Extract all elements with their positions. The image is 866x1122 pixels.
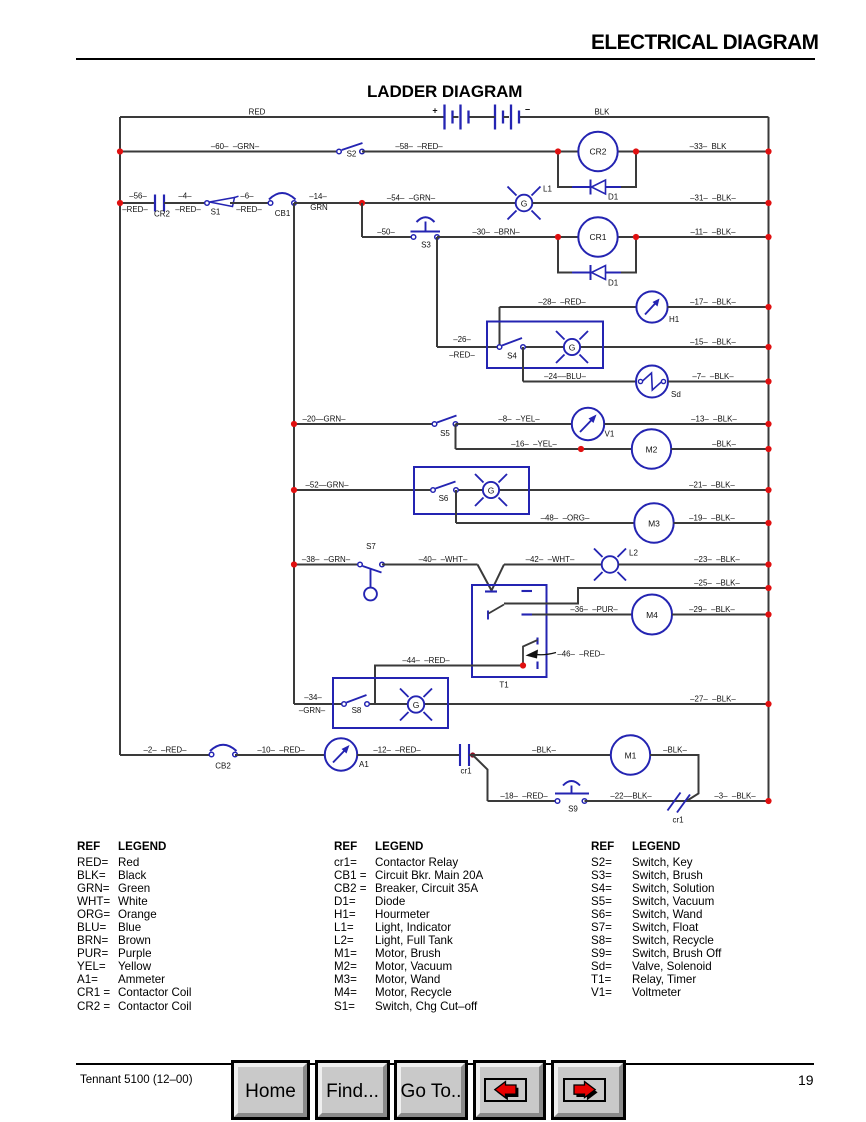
- node dot Sd rail: [765, 378, 771, 384]
- node dots S5 rung: [291, 421, 297, 427]
- node dots S6 rung: [291, 487, 297, 493]
- motor M1: [611, 735, 650, 774]
- contactor coil CR1: [578, 217, 617, 256]
- svg-text:RED: RED: [249, 107, 266, 116]
- svg-text:D1: D1: [608, 279, 619, 288]
- svg-text:S8: S8: [352, 706, 362, 715]
- wire 31 BLK (L1 to right rail): [533, 202, 769, 204]
- svg-text:GRN: GRN: [310, 203, 328, 212]
- svg-text:–4–: –4–: [178, 192, 192, 201]
- svg-text:M4: M4: [646, 610, 658, 620]
- LEGEND: [77, 840, 100, 853]
- switch S4: [497, 338, 525, 361]
- wire CR1 to right rail (11 BLK): [618, 236, 769, 238]
- switch S2: [337, 143, 365, 159]
- contact cr1 (normally closed slashes): [668, 793, 691, 825]
- svg-text:–RED–: –RED–: [175, 205, 201, 214]
- motor M2: [632, 429, 671, 468]
- svg-text:–48– –ORG–: –48– –ORG–: [541, 513, 590, 522]
- svg-text:G: G: [569, 343, 576, 353]
- svg-text:CB1: CB1: [275, 209, 291, 218]
- ladder diagram title: [367, 82, 522, 102]
- svg-text:–18– –RED–: –18– –RED–: [500, 791, 548, 800]
- switch S5: [432, 416, 458, 439]
- T1 top terminal bar: [485, 590, 497, 592]
- wire 25 BLK (T1 contact to right rail): [504, 588, 769, 604]
- motor M3: [634, 503, 673, 542]
- svg-text:A1: A1: [359, 760, 369, 769]
- lamp L1: [508, 185, 553, 220]
- svg-text:–28– –RED–: –28– –RED–: [538, 297, 586, 306]
- wire 19 BLK (M3 to right rail): [674, 522, 769, 524]
- circuit breaker CB1: [268, 193, 296, 218]
- wire 14 GRN / 54 GRN (CB1 to L1): [294, 202, 516, 204]
- node dot on 16 YEL wire: [578, 446, 584, 452]
- svg-text:–24––BLU–: –24––BLU–: [544, 372, 586, 381]
- node dot H1 rail: [765, 304, 771, 310]
- node junction dots rung1: [117, 148, 123, 154]
- wire 6 RED (S1 to CB1): [230, 202, 270, 204]
- ammeter A1: [325, 738, 370, 770]
- wire 48 ORG (to M3): [456, 522, 635, 524]
- svg-text:S9: S9: [568, 805, 578, 814]
- right rail: [768, 117, 770, 801]
- wire S5 down-branch to M2: [455, 424, 457, 449]
- svg-text:–BLK–: –BLK–: [712, 439, 736, 448]
- svg-text:L2: L2: [629, 549, 638, 558]
- node dots rung2: [117, 200, 123, 206]
- svg-text:–21– –BLK–: –21– –BLK–: [689, 480, 735, 489]
- svg-text:–RED–: –RED–: [449, 351, 475, 360]
- svg-text:–52—GRN–: –52—GRN–: [306, 480, 350, 489]
- svg-text:–22––BLK–: –22––BLK–: [610, 791, 652, 800]
- wire CR2 coil to right rail (33 BLK): [618, 151, 769, 153]
- wire 22 BLK (S9 to cr1 NC): [585, 800, 769, 802]
- svg-text:S3: S3: [421, 241, 431, 250]
- wire 12 RED (A1 to cr1 contact): [357, 754, 459, 756]
- svg-text:–BLK–: –BLK–: [532, 745, 556, 754]
- svg-text:–14–: –14–: [309, 192, 327, 201]
- svg-text:S5: S5: [440, 429, 450, 438]
- wire 29 BLK (M4 to right rail): [672, 614, 769, 616]
- wire S4 up-branch to H1 rung: [499, 307, 501, 345]
- node dot after cr1: [470, 752, 475, 757]
- svg-text:–16– –YEL–: –16– –YEL–: [511, 439, 557, 448]
- svg-text:L1: L1: [543, 185, 552, 194]
- svg-text:–3– –BLK–: –3– –BLK–: [714, 791, 756, 800]
- svg-text:cr1: cr1: [460, 767, 472, 776]
- T1 relay contact blade: [489, 605, 505, 614]
- wire 23 BLK (L2 to right rail): [619, 564, 769, 566]
- wire 60 GRN (left rail to S2): [120, 151, 339, 153]
- contact cr1 (normally open): [460, 744, 472, 776]
- enclosure box S6: [414, 467, 529, 514]
- node dots rung3: [555, 234, 561, 240]
- node dot S4 rail: [765, 344, 771, 350]
- svg-text:–50–: –50–: [377, 227, 395, 236]
- wire 56 RED (left rail to CR2 contact): [120, 202, 154, 204]
- svg-text:–11– –BLK–: –11– –BLK–: [690, 227, 736, 236]
- svg-text:–34–: –34–: [304, 693, 322, 702]
- wire BLK (M1 to corner): [650, 755, 699, 801]
- contactor coil CR2: [578, 132, 617, 171]
- svg-text:T1: T1: [499, 681, 509, 690]
- wire BLK (cr1 to M1): [469, 754, 611, 756]
- battery B1: [445, 105, 520, 130]
- svg-text:CB2: CB2: [215, 762, 231, 771]
- svg-text:D1: D1: [608, 193, 619, 202]
- svg-text:–10– –RED–: –10– –RED–: [257, 745, 305, 754]
- lamp L2: [594, 549, 638, 581]
- svg-text:–8– –YEL–: –8– –YEL–: [498, 414, 540, 423]
- wire 58 RED (S2 to CR2): [362, 151, 579, 153]
- svg-text:G: G: [413, 700, 420, 710]
- wire 20 GRN (bus to S5): [294, 423, 434, 425]
- svg-text:CR2: CR2: [589, 147, 606, 157]
- float switch S7: [358, 542, 385, 600]
- svg-text:–46– –RED–: –46– –RED–: [557, 650, 605, 659]
- header rule: [76, 58, 815, 60]
- wire 21 BLK (S6 through lamp to right rail): [456, 489, 769, 491]
- wire 13 BLK (V1 to right rail): [605, 423, 769, 425]
- svg-text:−: −: [525, 105, 530, 115]
- node dots S7 rung: [291, 561, 297, 567]
- lamp G in S6 box: [475, 474, 507, 506]
- node dot S9 rail: [765, 798, 771, 804]
- wire 42 WHT (dip to L2): [504, 564, 602, 566]
- node dot M2 rail: [765, 446, 771, 452]
- wire 26 RED (S3 branch to S4): [437, 346, 499, 348]
- svg-text:–26–: –26–: [453, 335, 471, 344]
- svg-text:+: +: [432, 106, 437, 116]
- svg-text:CR2: CR2: [154, 210, 171, 219]
- svg-text:S4: S4: [507, 352, 517, 361]
- wire 34 GRN (bus corner to S8): [294, 703, 344, 705]
- wire 40 WHT (S7 to T1 dip): [382, 564, 478, 566]
- node dot S8 rail: [765, 701, 771, 707]
- svg-text:–31– –BLK–: –31– –BLK–: [690, 193, 736, 202]
- wire 10 RED (CB2 to A1): [235, 754, 325, 756]
- svg-text:G: G: [521, 199, 528, 209]
- node dot 25 rail: [765, 585, 771, 591]
- wire 2 RED (left rail bottom to CB2): [120, 754, 211, 756]
- wire top rail right (BLK): [520, 116, 769, 118]
- svg-text:M3: M3: [648, 519, 660, 529]
- svg-text:–17– –BLK–: –17– –BLK–: [690, 297, 736, 306]
- svg-text:S6: S6: [439, 494, 449, 503]
- svg-text:–33– BLK: –33– BLK: [690, 142, 728, 151]
- switch S8: [342, 695, 370, 715]
- svg-text:S7: S7: [366, 542, 376, 551]
- svg-text:–19– –BLK–: –19– –BLK–: [689, 513, 735, 522]
- diode D1 snubber loop wire (upper): [558, 152, 636, 188]
- diode D1 (lower): [572, 265, 621, 288]
- svg-text:BLK: BLK: [595, 107, 611, 116]
- wire 50 (bus to S3): [362, 236, 414, 238]
- svg-text:–23– –BLK–: –23– –BLK–: [694, 555, 740, 564]
- svg-text:–58– –RED–: –58– –RED–: [395, 142, 443, 151]
- svg-text:CR1: CR1: [589, 232, 606, 242]
- wire 38 GRN (bus to S7): [294, 564, 360, 566]
- svg-text:–42– –WHT–: –42– –WHT–: [526, 555, 575, 564]
- wire 27 BLK (S8 through lamp to right rail): [367, 703, 769, 705]
- svg-text:–6–: –6–: [240, 192, 254, 201]
- svg-text:–56–: –56–: [129, 192, 147, 201]
- wire 52 GRN (bus to S6 box): [294, 489, 433, 491]
- svg-text:–29– –BLK–: –29– –BLK–: [689, 605, 735, 614]
- T1 fixed contact bar (upper NC): [522, 590, 533, 592]
- svg-text:–30– –BRN–: –30– –BRN–: [472, 227, 520, 236]
- enclosure box S8: [333, 678, 448, 728]
- wire 7 BLK (Sd to right rail): [668, 381, 769, 383]
- svg-text:–54– –GRN–: –54– –GRN–: [387, 193, 436, 202]
- wire dip into T1 top terminal: [478, 565, 505, 591]
- motor M4: [632, 595, 672, 635]
- svg-text:V1: V1: [605, 430, 615, 439]
- wire 15 BLK (S4 through lamp to right rail): [523, 346, 769, 348]
- svg-text:–GRN–: –GRN–: [299, 706, 326, 715]
- switch S1: [205, 196, 239, 216]
- wire 28 RED (to H1): [500, 306, 638, 308]
- svg-text:M2: M2: [646, 445, 658, 455]
- svg-text:–BLK–: –BLK–: [663, 745, 687, 754]
- wire 16 YEL (to M2): [456, 448, 633, 450]
- svg-text:–25– –BLK–: –25– –BLK–: [694, 578, 740, 587]
- voltmeter V1: [572, 408, 615, 440]
- wire 4 RED (CR2 contact to S1): [164, 202, 205, 204]
- T1 timed contact upper terminal: [536, 638, 538, 645]
- T1 timed contact blade: [523, 640, 538, 666]
- svg-text:–27– –BLK–: –27– –BLK–: [690, 694, 736, 703]
- svg-text:Sd: Sd: [671, 390, 681, 399]
- svg-text:–12– –RED–: –12– –RED–: [373, 745, 421, 754]
- wire battery cell ticks: [453, 116, 459, 118]
- T1 timed contact lower terminal: [536, 662, 538, 670]
- solenoid valve Sd: [636, 366, 681, 400]
- T1 fixed contact bar (lower NO): [522, 613, 533, 615]
- svg-text:–7– –BLK–: –7– –BLK–: [692, 372, 734, 381]
- svg-text:–RED–: –RED–: [122, 205, 148, 214]
- wire S6 down-branch to M3: [455, 490, 457, 523]
- svg-text:G: G: [488, 486, 495, 496]
- pushbutton switch S9: [555, 781, 589, 814]
- svg-text:–15– –BLK–: –15– –BLK–: [690, 337, 736, 346]
- hourmeter H1: [636, 291, 679, 324]
- wire 8 YEL (S5 to V1): [456, 423, 573, 425]
- enclosure box S4: [487, 322, 603, 369]
- svg-text:S2: S2: [347, 150, 357, 159]
- lamp G in S8 box: [400, 689, 432, 721]
- svg-text:S1: S1: [211, 208, 221, 217]
- lamp G in S4 box: [556, 331, 588, 363]
- relay timer T1 box: [472, 585, 547, 677]
- wire 36 PUR (T1 to M4): [532, 614, 632, 616]
- wire 30 BRN (S3 to CR1): [437, 236, 579, 238]
- svg-text:–60– –GRN–: –60– –GRN–: [211, 142, 260, 151]
- svg-text:H1: H1: [669, 315, 680, 324]
- node dot M3 rail: [765, 520, 771, 526]
- wire 46 RED actuation arrow: [526, 650, 606, 659]
- node dot T1 44 junction: [520, 662, 526, 668]
- wire 18 RED (branch to S9): [488, 800, 558, 802]
- svg-text:–40– –WHT–: –40– –WHT–: [419, 555, 468, 564]
- wire S4 down-branch to Sd rung: [522, 347, 524, 382]
- node dot M4 rail: [765, 611, 771, 617]
- svg-text:–2– –RED–: –2– –RED–: [144, 745, 188, 754]
- diode D1 (upper): [572, 180, 621, 202]
- wire 24 BLU (to Sd): [523, 381, 637, 383]
- wire left bus (below CB1 down to S8 rung): [293, 203, 295, 704]
- wire branch down to S9 rung: [473, 755, 488, 801]
- switch S6: [431, 482, 459, 504]
- svg-text:–RED–: –RED–: [236, 205, 262, 214]
- wire 44 RED (S8 branch to T1): [375, 666, 523, 705]
- wire M2 to right rail (BLK): [671, 448, 769, 450]
- wire 17 BLK (H1 to right rail): [668, 306, 769, 308]
- svg-text:–38– –GRN–: –38– –GRN–: [302, 555, 351, 564]
- left rail: [119, 117, 121, 755]
- FOOTER: [76, 1063, 814, 1065]
- header title: [591, 31, 815, 55]
- circuit breaker CB2: [209, 745, 237, 771]
- wire top rail left (RED): [120, 116, 445, 118]
- wire branch down to S3 rung: [361, 203, 363, 237]
- svg-text:cr1: cr1: [672, 816, 684, 825]
- svg-text:–13– –BLK–: –13– –BLK–: [691, 414, 737, 423]
- svg-text:–20—GRN–: –20—GRN–: [303, 414, 347, 423]
- diode D1 snubber loop wire (lower): [558, 237, 636, 273]
- wire battery mid link: [470, 116, 496, 118]
- SCHEMATIC SVG: [0, 0, 866, 840]
- pushbutton switch S3: [411, 217, 441, 249]
- wire S3 branch down to S4 rung: [436, 237, 438, 347]
- svg-text:M1: M1: [625, 751, 637, 761]
- T1 relay contact pivot pin: [487, 611, 489, 620]
- contact CR2 (normally open): [155, 195, 164, 212]
- svg-text:–44– –RED–: –44– –RED–: [402, 656, 450, 665]
- svg-text:–36– –PUR–: –36– –PUR–: [570, 605, 618, 614]
